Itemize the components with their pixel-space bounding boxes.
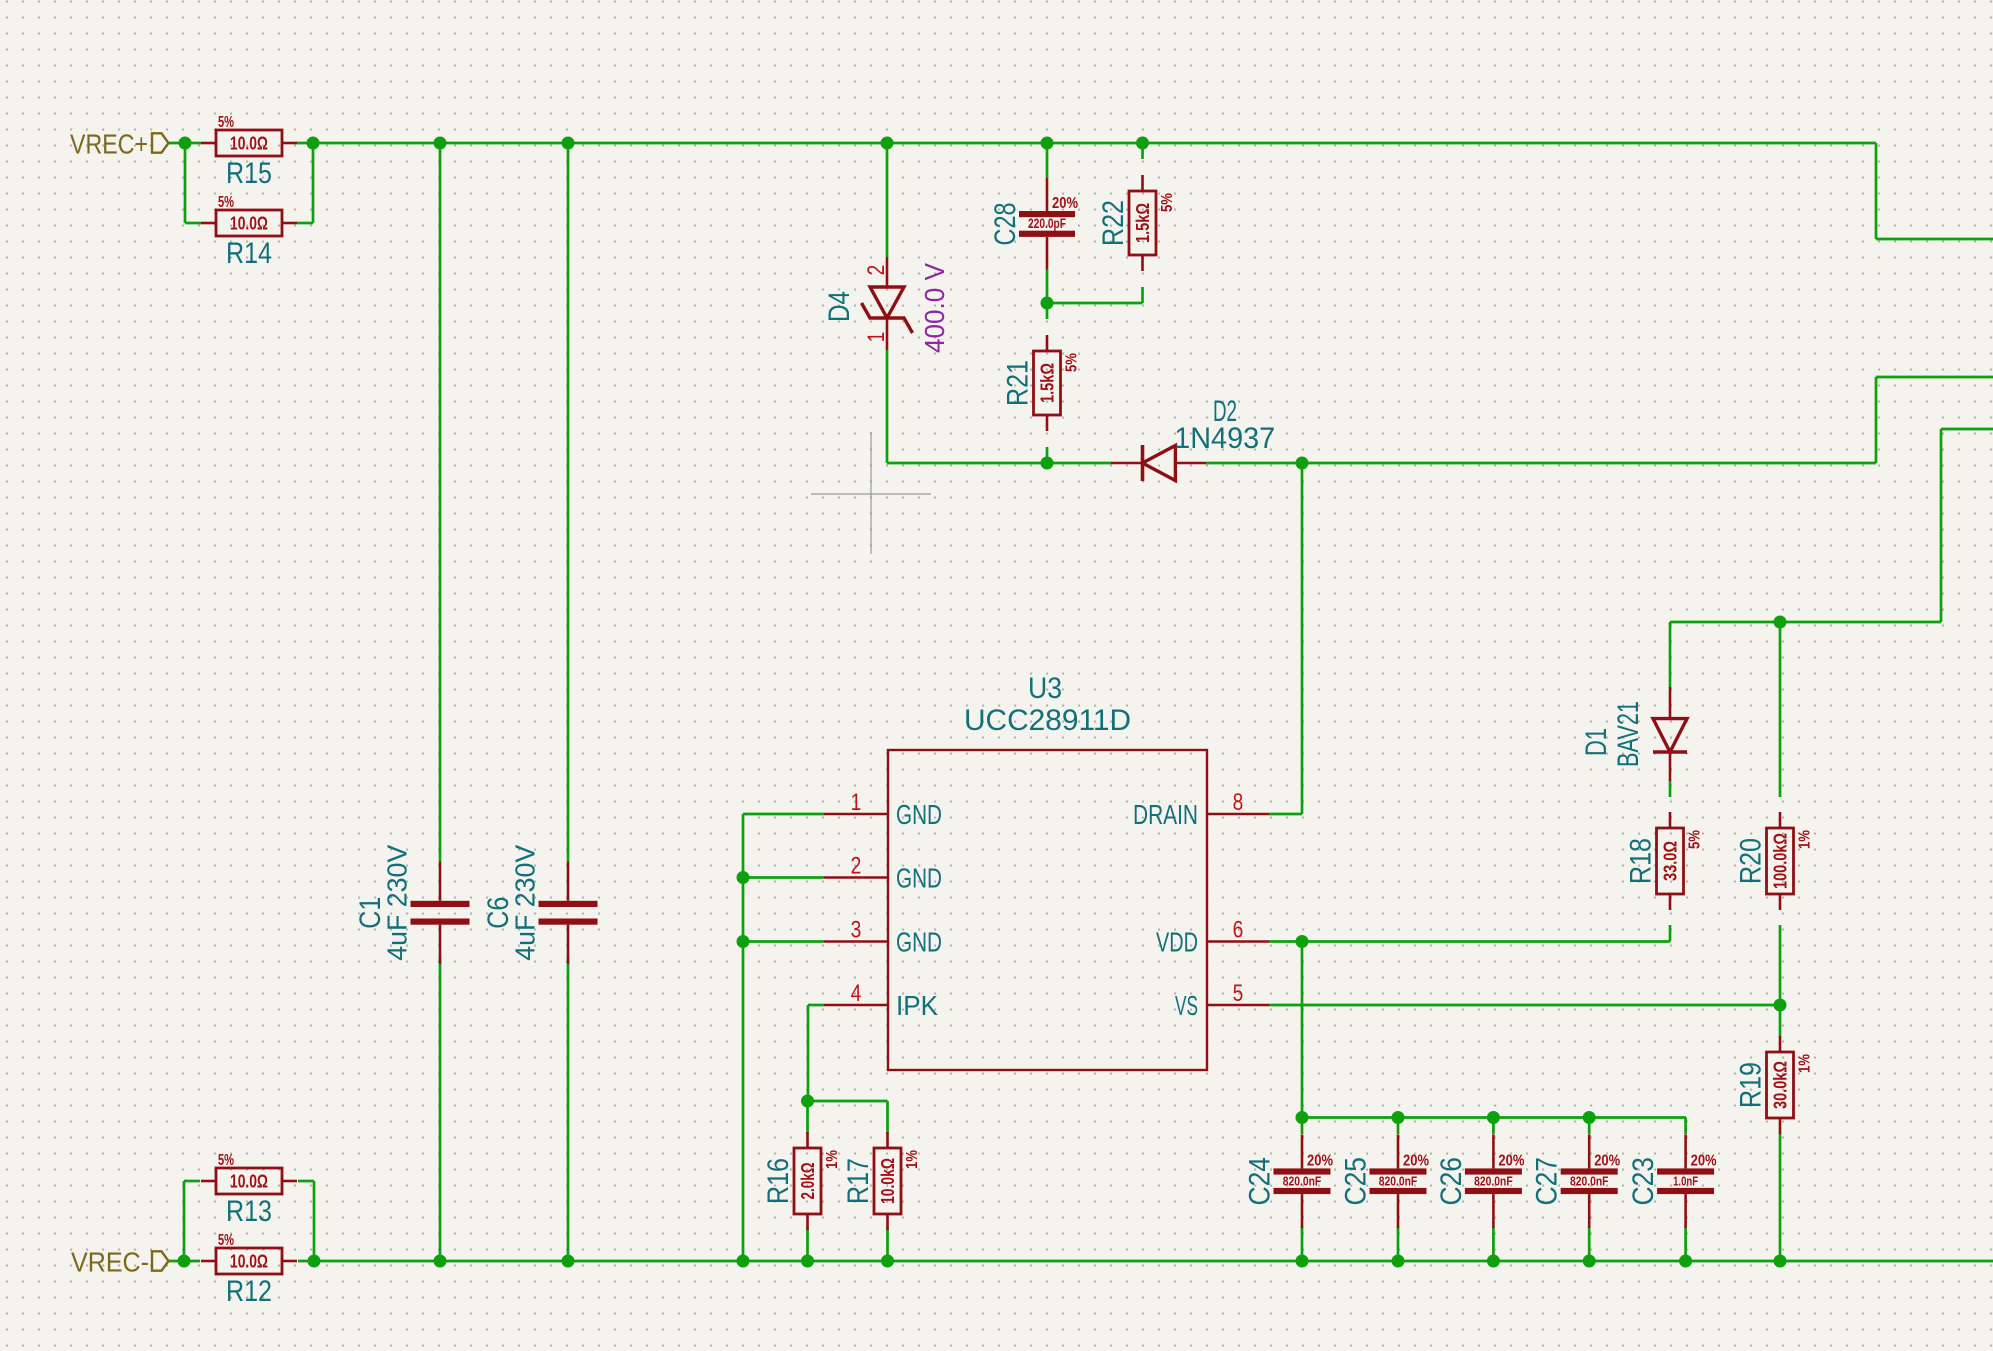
svg-text:GND: GND xyxy=(896,863,942,894)
wire R13 right xyxy=(298,1180,314,1183)
op-amp U3 UCC28911D body xyxy=(888,750,1207,1070)
wire C27 top stub xyxy=(1588,1118,1591,1135)
wire C23 bottom stub xyxy=(1684,1227,1687,1261)
pin 3 GND (left) xyxy=(824,940,888,943)
wire C6 bottom vertical xyxy=(567,956,570,1261)
capacitor C27 xyxy=(1588,1134,1591,1168)
capacitor C6 xyxy=(567,862,570,901)
wire R22 bottom xyxy=(1141,287,1144,303)
svg-text:1%: 1% xyxy=(904,1150,921,1169)
junction GND rail xyxy=(737,1255,750,1268)
wire R22 to C28 node horizontal xyxy=(1047,302,1143,305)
svg-text:5%: 5% xyxy=(218,114,234,131)
junction C28 top xyxy=(1041,137,1054,150)
svg-text:10.0Ω: 10.0Ω xyxy=(230,134,268,154)
capacitor C23 xyxy=(1684,1134,1687,1168)
svg-text:R14: R14 xyxy=(226,237,272,270)
junction D4 top xyxy=(881,137,894,150)
svg-text:100.0kΩ: 100.0kΩ xyxy=(1771,833,1791,889)
wire C1 bottom vertical xyxy=(439,956,442,1261)
svg-text:1: 1 xyxy=(851,788,862,816)
junction C25 bottom xyxy=(1392,1255,1405,1268)
junction C27 bottom xyxy=(1583,1255,1596,1268)
svg-text:R12: R12 xyxy=(226,1275,272,1308)
junction GND pin2 xyxy=(737,871,750,884)
junction C6 top xyxy=(562,137,575,150)
svg-text:VDD: VDD xyxy=(1156,927,1198,958)
junction C1 bottom xyxy=(434,1255,447,1268)
svg-text:R19: R19 xyxy=(1735,1062,1768,1108)
svg-text:1%: 1% xyxy=(1797,1054,1814,1073)
wire R19 bottom xyxy=(1779,1133,1782,1261)
svg-text:IPK: IPK xyxy=(896,990,939,1021)
hierarchical label VREC+ xyxy=(152,133,169,152)
svg-text:4uF 230V: 4uF 230V xyxy=(382,844,413,961)
svg-text:4uF 230V: 4uF 230V xyxy=(510,844,541,961)
wire top-right stub to edge xyxy=(1876,238,1993,241)
wire D2 net vertical right xyxy=(1875,377,1878,463)
svg-text:5: 5 xyxy=(1233,979,1244,1007)
svg-text:VS: VS xyxy=(1175,990,1198,1021)
junction R21/D2 node xyxy=(1041,457,1054,470)
svg-text:5%: 5% xyxy=(1159,193,1176,212)
svg-text:R18: R18 xyxy=(1625,838,1658,884)
svg-text:C24: C24 xyxy=(1244,1157,1277,1206)
resistor R12 xyxy=(201,1260,216,1263)
svg-text:D4: D4 xyxy=(823,291,856,322)
svg-text:2: 2 xyxy=(862,265,890,276)
svg-text:820.0nF: 820.0nF xyxy=(1474,1174,1513,1188)
wire D4 bottom vertical xyxy=(886,350,889,463)
svg-text:400.0 V: 400.0 V xyxy=(919,262,950,353)
svg-text:BAV21: BAV21 xyxy=(1612,701,1645,767)
wire cap bank top rail xyxy=(1302,1116,1686,1119)
resistor R13 xyxy=(201,1180,216,1183)
resistor R20 xyxy=(1779,812,1782,828)
svg-text:R17: R17 xyxy=(842,1158,875,1204)
wire D1/R20 top rail xyxy=(1670,621,1941,624)
junction C24 bottom xyxy=(1296,1255,1309,1268)
svg-text:10.0Ω: 10.0Ω xyxy=(230,1252,268,1272)
resistor R16 xyxy=(806,1132,809,1148)
wire VREC+ junction to R14 row vertical xyxy=(184,143,187,223)
wire C26 top stub xyxy=(1492,1118,1495,1135)
wire pin2 GND xyxy=(743,876,824,879)
svg-text:2: 2 xyxy=(851,851,862,879)
wire R16 bottom xyxy=(806,1227,809,1261)
wire C6 top vertical xyxy=(567,143,570,862)
wire C28 bottom xyxy=(1046,270,1049,303)
wire DRAIN pin xyxy=(1269,813,1302,816)
svg-text:C23: C23 xyxy=(1627,1157,1660,1206)
wire C28 top xyxy=(1046,143,1049,178)
capacitor C28 xyxy=(1046,178,1049,211)
junction D2/DRAIN node xyxy=(1296,457,1309,470)
svg-text:5%: 5% xyxy=(218,1152,234,1169)
wire VREC- to R12 xyxy=(169,1260,201,1263)
svg-text:8: 8 xyxy=(1233,788,1244,816)
svg-text:2.0kΩ: 2.0kΩ xyxy=(798,1163,818,1200)
pin 1 GND (left) xyxy=(824,813,888,816)
svg-text:1%: 1% xyxy=(1797,830,1814,849)
wire C25 bottom stub xyxy=(1397,1227,1400,1261)
capacitor C25 xyxy=(1397,1134,1400,1168)
svg-text:3: 3 xyxy=(851,915,862,943)
svg-text:820.0nF: 820.0nF xyxy=(1570,1174,1609,1188)
junction C26 bottom xyxy=(1487,1255,1500,1268)
wire R18 bottom to VDD xyxy=(1669,925,1672,942)
svg-text:5%: 5% xyxy=(218,194,234,211)
resistor R14 xyxy=(201,222,216,225)
wire DRAIN net vertical xyxy=(1301,463,1304,814)
svg-text:R20: R20 xyxy=(1735,838,1768,884)
wire C27 bottom stub xyxy=(1588,1227,1591,1261)
capacitor C24 xyxy=(1301,1134,1304,1168)
junction R22 top xyxy=(1136,137,1149,150)
svg-text:5%: 5% xyxy=(1687,830,1704,849)
junction R16 bottom xyxy=(801,1255,814,1268)
wire D1 to R18 xyxy=(1669,781,1672,797)
svg-text:20%: 20% xyxy=(1498,1152,1524,1169)
wire R16 top xyxy=(806,1101,809,1134)
wire R17 top vertical xyxy=(886,1101,889,1134)
pin 6 VDD (right) xyxy=(1207,940,1269,943)
junction VDD/cap-bank xyxy=(1296,935,1309,948)
svg-text:5%: 5% xyxy=(1064,353,1081,372)
junction C28/R22/R21 node xyxy=(1041,297,1054,310)
svg-text:20%: 20% xyxy=(1691,1152,1717,1169)
wire VREC+ to R15 xyxy=(169,142,202,145)
resistor R19 xyxy=(1779,1036,1782,1052)
svg-text:10.0Ω: 10.0Ω xyxy=(230,214,268,234)
wire VREC- bottom rail xyxy=(298,1260,1993,1263)
wire R20 top xyxy=(1779,622,1782,797)
svg-text:4: 4 xyxy=(851,979,862,1007)
svg-text:C25: C25 xyxy=(1340,1157,1373,1206)
pin 5 VS (right) xyxy=(1207,1004,1269,1007)
svg-text:R21: R21 xyxy=(1002,360,1035,406)
svg-text:820.0nF: 820.0nF xyxy=(1283,1174,1322,1188)
svg-text:1: 1 xyxy=(862,332,890,343)
svg-text:D1: D1 xyxy=(1580,728,1613,756)
svg-text:VREC+: VREC+ xyxy=(70,129,148,160)
wire R13 left xyxy=(184,1180,200,1183)
diode D2 1N4937 xyxy=(1111,462,1143,465)
diode D1 BAV21 xyxy=(1669,687,1672,719)
diode D4 (TVS 400V) xyxy=(886,257,889,287)
svg-text:R13: R13 xyxy=(226,1195,272,1228)
pin 2 GND (left) xyxy=(824,876,888,879)
svg-text:1.5kΩ: 1.5kΩ xyxy=(1038,363,1058,403)
capacitor C26 xyxy=(1492,1134,1495,1168)
wire D4 top vertical xyxy=(886,143,889,257)
wire C1 top vertical xyxy=(439,143,442,862)
wire C24 bottom stub xyxy=(1301,1227,1304,1261)
wire top-right corner vertical xyxy=(1875,143,1878,239)
wire R17 bottom xyxy=(886,1227,889,1261)
wire node to R21 top xyxy=(1046,303,1049,319)
wire VS node to R19 xyxy=(1779,1005,1782,1037)
junction VREC-/R12/R13 xyxy=(178,1255,191,1268)
resistor R22 xyxy=(1141,175,1144,191)
resistor R18 xyxy=(1669,812,1672,828)
svg-text:20%: 20% xyxy=(1307,1152,1333,1169)
svg-text:10.0Ω: 10.0Ω xyxy=(230,1172,268,1192)
wire IPK vertical xyxy=(807,1005,810,1101)
svg-text:GND: GND xyxy=(896,927,942,958)
junction C26 top xyxy=(1487,1111,1500,1124)
wire R14 left xyxy=(185,222,201,225)
wire R14 right xyxy=(297,222,313,225)
svg-text:1N4937: 1N4937 xyxy=(1174,422,1275,455)
svg-text:R22: R22 xyxy=(1097,200,1130,246)
junction VS/R19/R20 xyxy=(1774,999,1787,1012)
svg-text:1.0nF: 1.0nF xyxy=(1673,1174,1698,1188)
svg-text:20%: 20% xyxy=(1403,1152,1429,1169)
wire C23 top stub xyxy=(1684,1118,1687,1135)
svg-text:33.0Ω: 33.0Ω xyxy=(1661,841,1681,881)
svg-text:R15: R15 xyxy=(226,157,272,190)
svg-text:UCC28911D: UCC28911D xyxy=(964,704,1131,737)
svg-text:U3: U3 xyxy=(1028,672,1062,705)
pin 4 IPK (left) xyxy=(824,1004,888,1007)
svg-text:C27: C27 xyxy=(1531,1157,1564,1206)
wire pin3 GND xyxy=(743,940,824,943)
hierarchical label VREC- xyxy=(152,1251,169,1270)
junction C25 top xyxy=(1392,1111,1405,1124)
svg-text:30.0kΩ: 30.0kΩ xyxy=(1771,1061,1791,1109)
junction R20 top xyxy=(1774,616,1787,629)
svg-text:820.0nF: 820.0nF xyxy=(1379,1174,1418,1188)
wire VDD net xyxy=(1269,940,1670,943)
svg-text:DRAIN: DRAIN xyxy=(1133,799,1198,830)
wire GND vertical xyxy=(742,814,745,1261)
wire VDD node vertical to cap bank xyxy=(1301,942,1304,1118)
svg-text:10.0kΩ: 10.0kΩ xyxy=(878,1158,898,1204)
pin 8 DRAIN (right) xyxy=(1207,813,1269,816)
wire R13 right vertical xyxy=(313,1181,316,1261)
junction C6 bottom xyxy=(562,1255,575,1268)
resistor R21 xyxy=(1046,335,1049,351)
wire D2 to node xyxy=(1206,462,1876,465)
origin crosshair marker xyxy=(811,493,931,495)
svg-text:C28: C28 xyxy=(989,202,1022,245)
resistor R15 xyxy=(201,142,216,145)
svg-text:1.5kΩ: 1.5kΩ xyxy=(1133,203,1153,243)
wire R20 bottom to VS node xyxy=(1779,925,1782,1005)
junction R19 bottom xyxy=(1774,1255,1787,1268)
wire right vertical to D1 rail xyxy=(1940,429,1943,622)
wire VREC+ top rail xyxy=(297,142,1876,145)
svg-text:VREC-: VREC- xyxy=(71,1246,149,1277)
junction C27 top xyxy=(1583,1111,1596,1124)
wire C24 top stub xyxy=(1301,1118,1304,1135)
svg-text:GND: GND xyxy=(896,799,942,830)
capacitor C1 xyxy=(439,862,442,901)
svg-text:1%: 1% xyxy=(824,1150,841,1169)
junction R17 bottom xyxy=(881,1255,894,1268)
svg-text:220.0pF: 220.0pF xyxy=(1028,216,1066,231)
wire C25 top stub xyxy=(1397,1118,1400,1135)
wire pin1 GND xyxy=(743,813,824,816)
wire D1 top xyxy=(1669,622,1672,687)
wire D4 to D2 horizontal xyxy=(887,462,1111,465)
wire VS net xyxy=(1269,1004,1780,1007)
svg-text:20%: 20% xyxy=(1594,1152,1620,1169)
wire C26 bottom stub xyxy=(1492,1227,1495,1261)
junction IPK/R16/R17 xyxy=(801,1095,814,1108)
svg-text:6: 6 xyxy=(1233,915,1244,943)
junction VREC+/R15/R14 xyxy=(179,137,192,150)
wire IPK node to R17 horizontal xyxy=(808,1100,888,1103)
junction C24 top xyxy=(1296,1111,1309,1124)
wire right edge stub y429 xyxy=(1941,428,1993,431)
wire R14 right vertical up xyxy=(312,143,315,223)
wire D2 net stub to edge xyxy=(1876,376,1993,379)
svg-text:5%: 5% xyxy=(218,1232,234,1249)
junction C23 bottom xyxy=(1679,1255,1692,1268)
svg-text:R16: R16 xyxy=(762,1158,795,1204)
wire R13 left vertical xyxy=(183,1181,186,1261)
svg-text:20%: 20% xyxy=(1052,195,1078,212)
junction R15-R14 right xyxy=(307,137,320,150)
svg-text:C26: C26 xyxy=(1435,1157,1468,1206)
junction GND pin3 xyxy=(737,935,750,948)
wire pin4 IPK xyxy=(808,1004,824,1007)
junction C1 top xyxy=(434,137,447,150)
wire R21 bottom xyxy=(1046,447,1049,463)
junction R12-R13 right xyxy=(308,1255,321,1268)
resistor R17 xyxy=(886,1132,889,1148)
wire R22 top xyxy=(1141,143,1144,159)
